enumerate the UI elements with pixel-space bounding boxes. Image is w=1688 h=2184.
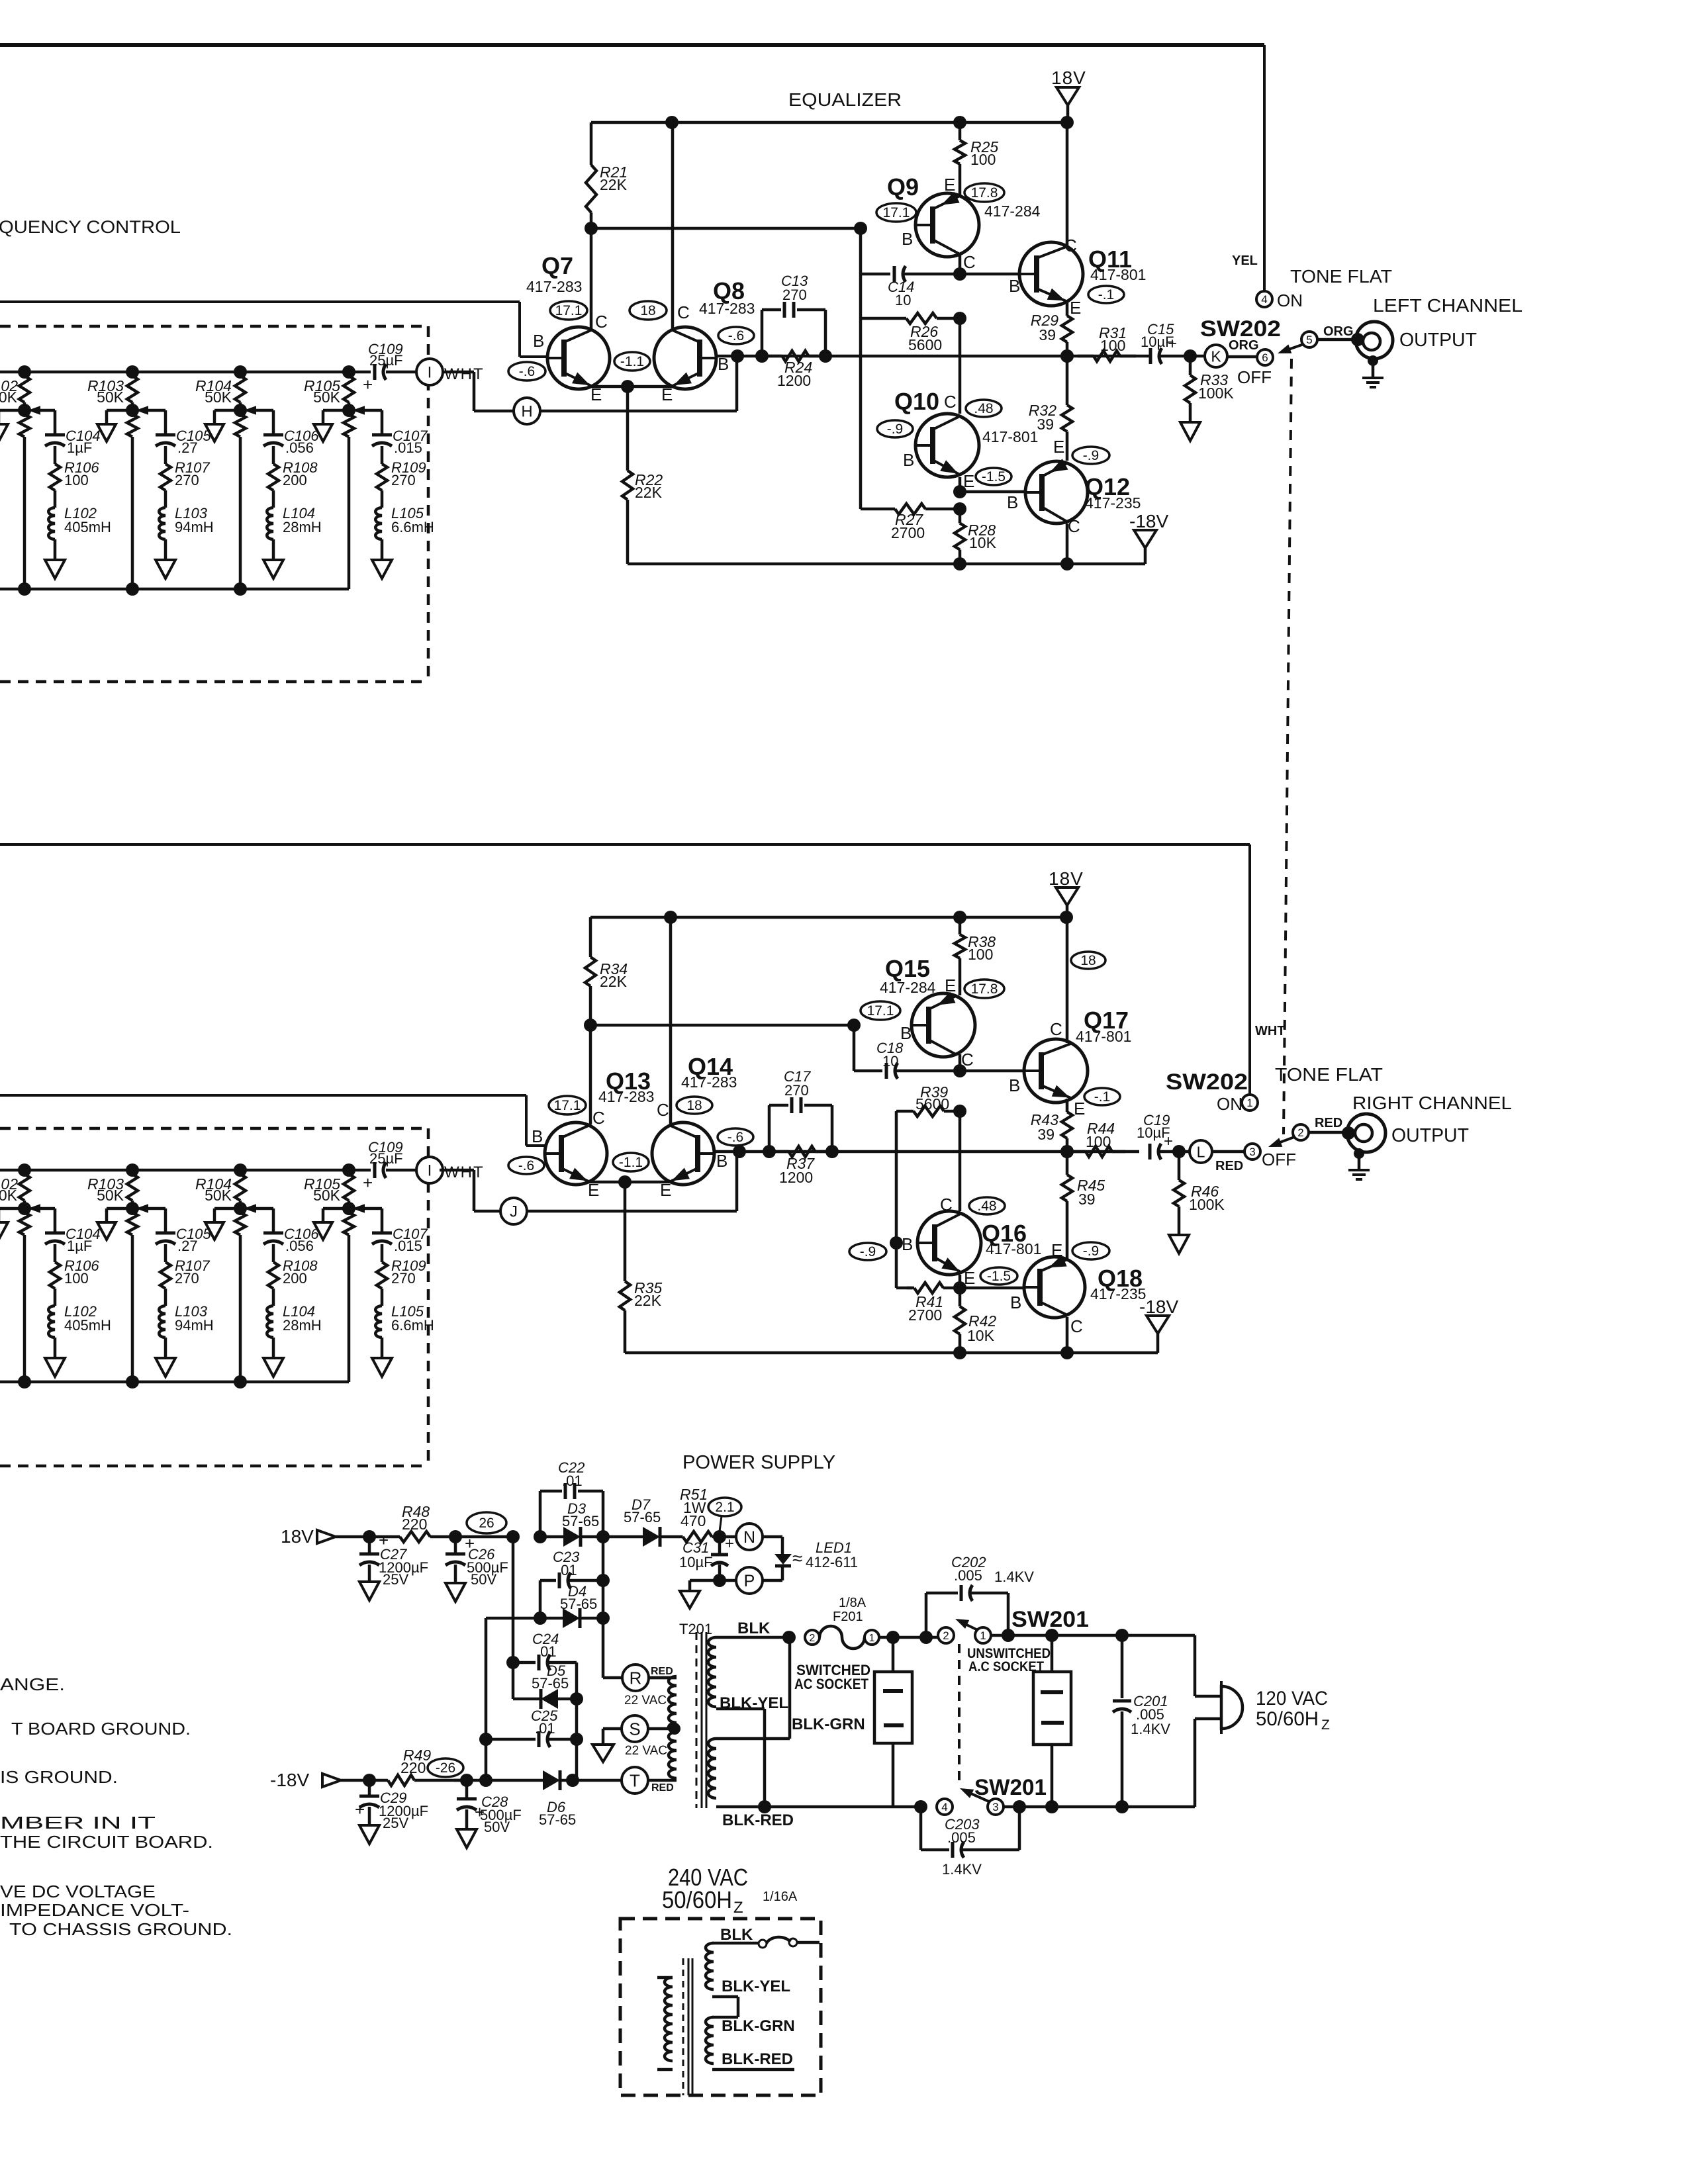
svg-text:270: 270: [391, 472, 416, 488]
svg-text:E: E: [944, 175, 955, 195]
svg-text:BLK-GRN: BLK-GRN: [792, 1715, 865, 1733]
svg-text:RED: RED: [1215, 1159, 1243, 1173]
svg-text:POWER SUPPLY: POWER SUPPLY: [682, 1452, 835, 1473]
svg-text:BLK-GRN: BLK-GRN: [722, 2017, 795, 2035]
svg-text:.005: .005: [947, 1829, 976, 1846]
svg-text:2: 2: [810, 1633, 816, 1644]
svg-text:-.9: -.9: [860, 1244, 876, 1259]
svg-text:50/60H: 50/60H: [662, 1886, 732, 1913]
svg-text:5600: 5600: [908, 336, 942, 353]
svg-text:50K: 50K: [0, 1187, 18, 1204]
svg-text:BLK-RED: BLK-RED: [722, 2050, 793, 2068]
svg-text:C: C: [595, 312, 608, 332]
svg-text:17.1: 17.1: [883, 205, 910, 220]
svg-text:405mH: 405mH: [64, 1317, 111, 1334]
svg-text:-.1: -.1: [1098, 287, 1115, 302]
svg-text:4: 4: [941, 1801, 947, 1813]
svg-text:Z: Z: [1321, 1717, 1330, 1733]
svg-text:2.1: 2.1: [715, 1500, 734, 1515]
svg-text:1/8A: 1/8A: [839, 1596, 867, 1610]
svg-text:50K: 50K: [97, 388, 124, 406]
svg-text:-.9: -.9: [1083, 448, 1100, 463]
svg-text:100K: 100K: [1198, 385, 1234, 402]
svg-text:94mH: 94mH: [175, 1317, 214, 1334]
svg-text:C: C: [944, 392, 957, 412]
svg-text:TONE FLAT: TONE FLAT: [1275, 1064, 1383, 1085]
svg-text:≈: ≈: [792, 1548, 802, 1569]
svg-text:50K: 50K: [313, 388, 341, 406]
svg-text:417-801: 417-801: [1076, 1028, 1131, 1045]
svg-text:10µF: 10µF: [679, 1554, 713, 1570]
svg-text:BLK-RED: BLK-RED: [722, 1811, 794, 1829]
svg-text:200: 200: [283, 1270, 307, 1287]
svg-text:K: K: [1211, 347, 1221, 365]
svg-text:+: +: [355, 1799, 365, 1819]
svg-text:1.4KV: 1.4KV: [942, 1861, 982, 1878]
svg-text:417-801: 417-801: [982, 428, 1038, 445]
svg-text:B: B: [533, 331, 544, 351]
svg-text:E: E: [1053, 437, 1064, 457]
svg-text:RED: RED: [1315, 1116, 1342, 1130]
svg-text:-1.1: -1.1: [620, 354, 644, 369]
svg-text:1.4KV: 1.4KV: [1131, 1721, 1170, 1737]
svg-text:B: B: [1007, 492, 1018, 512]
svg-text:10: 10: [882, 1053, 898, 1069]
svg-text:SW201: SW201: [974, 1775, 1047, 1800]
svg-text:.01: .01: [557, 1562, 577, 1578]
svg-text:17.8: 17.8: [971, 185, 998, 201]
svg-text:C: C: [963, 252, 976, 272]
svg-text:417-283: 417-283: [598, 1088, 654, 1105]
svg-text:B: B: [903, 450, 914, 470]
svg-text:C: C: [1050, 1019, 1062, 1039]
svg-text:1: 1: [869, 1633, 875, 1644]
svg-text:2700: 2700: [908, 1306, 942, 1324]
svg-text:50K: 50K: [313, 1187, 341, 1204]
svg-text:57-65: 57-65: [539, 1811, 576, 1828]
svg-text:OFF: OFF: [1237, 367, 1272, 387]
svg-text:MBER IN IT: MBER IN IT: [0, 1813, 156, 1833]
svg-text:-18V: -18V: [270, 1770, 309, 1790]
svg-text:17.8: 17.8: [971, 981, 998, 997]
svg-text:10: 10: [895, 292, 911, 308]
svg-text:BLK: BLK: [720, 1926, 753, 1944]
svg-text:17.1: 17.1: [555, 303, 583, 318]
svg-text:B: B: [902, 229, 913, 249]
svg-text:IMPEDANCE VOLT-: IMPEDANCE VOLT-: [0, 1900, 189, 1920]
svg-text:.015: .015: [394, 439, 422, 456]
svg-text:18V: 18V: [281, 1526, 314, 1547]
svg-text:100: 100: [1086, 1133, 1111, 1150]
svg-text:EQUALIZER: EQUALIZER: [788, 89, 902, 110]
svg-text:.005: .005: [954, 1567, 982, 1584]
svg-text:270: 270: [782, 287, 807, 303]
svg-text:-26: -26: [436, 1760, 455, 1776]
svg-text:C: C: [940, 1195, 953, 1214]
svg-text:E: E: [1051, 1240, 1062, 1260]
svg-text:6.6mH: 6.6mH: [391, 519, 434, 535]
svg-text:+: +: [725, 1535, 734, 1553]
svg-text:B: B: [532, 1126, 543, 1146]
svg-text:-.9: -.9: [1083, 1244, 1100, 1259]
svg-text:18V: 18V: [1051, 68, 1086, 88]
svg-text:100: 100: [64, 1270, 89, 1287]
svg-text:2: 2: [943, 1629, 949, 1642]
svg-text:1: 1: [1246, 1097, 1252, 1109]
svg-text:ORG: ORG: [1323, 324, 1354, 339]
svg-text:C: C: [657, 1100, 669, 1120]
svg-text:Q9: Q9: [887, 173, 919, 201]
svg-text:IS GROUND.: IS GROUND.: [0, 1767, 118, 1787]
svg-text:.27: .27: [177, 1238, 198, 1254]
svg-text:T: T: [630, 1770, 640, 1790]
svg-text:1200: 1200: [779, 1169, 813, 1186]
svg-text:22K: 22K: [634, 1292, 662, 1309]
svg-text:L: L: [1197, 1143, 1205, 1160]
svg-text:LEFT CHANNEL: LEFT CHANNEL: [1373, 295, 1523, 316]
svg-text:22 VAC: 22 VAC: [624, 1694, 667, 1707]
svg-text:+: +: [1164, 1132, 1173, 1150]
svg-text:100: 100: [970, 151, 996, 168]
svg-text:120 VAC: 120 VAC: [1256, 1688, 1328, 1709]
svg-text:-18V: -18V: [1129, 511, 1168, 531]
svg-text:100K: 100K: [1189, 1196, 1225, 1213]
svg-text:+: +: [1168, 335, 1177, 353]
svg-text:C: C: [677, 302, 690, 322]
svg-text:17.1: 17.1: [867, 1003, 894, 1019]
svg-text:25V: 25V: [383, 1571, 408, 1588]
svg-text:270: 270: [391, 1270, 416, 1287]
svg-text:J: J: [510, 1203, 518, 1221]
svg-text:-1.1: -1.1: [619, 1155, 643, 1170]
svg-text:17.1: 17.1: [554, 1098, 581, 1113]
svg-text:1µF: 1µF: [67, 1238, 92, 1254]
svg-text:1: 1: [980, 1629, 986, 1642]
svg-text:5: 5: [1306, 334, 1312, 346]
svg-text:-.6: -.6: [728, 328, 745, 343]
svg-text:412-611: 412-611: [806, 1554, 858, 1570]
svg-text:1.4KV: 1.4KV: [994, 1569, 1034, 1585]
svg-text:Q10: Q10: [894, 388, 939, 415]
svg-text:RIGHT CHANNEL: RIGHT CHANNEL: [1352, 1093, 1512, 1113]
svg-text:VE DC VOLTAGE: VE DC VOLTAGE: [0, 1882, 156, 1901]
svg-text:50K: 50K: [97, 1187, 124, 1204]
svg-text:270: 270: [175, 1270, 199, 1287]
svg-text:200: 200: [283, 472, 307, 488]
svg-text:100: 100: [1100, 337, 1125, 354]
svg-text:.48: .48: [974, 401, 993, 416]
svg-text:-.6: -.6: [519, 364, 536, 379]
svg-text:+: +: [363, 1173, 373, 1193]
svg-text:.056: .056: [285, 1238, 314, 1254]
svg-text:220: 220: [402, 1516, 427, 1533]
svg-text:BLK-YEL: BLK-YEL: [720, 1694, 788, 1712]
svg-text:25V: 25V: [383, 1815, 408, 1831]
svg-text:57-65: 57-65: [562, 1513, 599, 1529]
svg-text:S: S: [629, 1719, 640, 1739]
svg-text:10K: 10K: [967, 1327, 995, 1344]
svg-text:C: C: [1068, 516, 1080, 536]
svg-text:WHT: WHT: [444, 1163, 485, 1181]
svg-text:417-284: 417-284: [880, 979, 936, 996]
svg-text:18V: 18V: [1049, 868, 1084, 889]
svg-text:270: 270: [784, 1082, 809, 1099]
svg-text:OUTPUT: OUTPUT: [1399, 330, 1477, 351]
svg-text:50K: 50K: [0, 388, 18, 406]
svg-text:22K: 22K: [600, 973, 628, 990]
svg-text:SW202: SW202: [1166, 1069, 1248, 1095]
svg-text:.48: .48: [977, 1199, 996, 1214]
svg-text:1/16A: 1/16A: [763, 1889, 798, 1904]
svg-text:.01: .01: [536, 1643, 557, 1660]
svg-text:57-65: 57-65: [532, 1675, 569, 1692]
svg-text:H: H: [521, 403, 532, 421]
svg-text:C: C: [1070, 1316, 1083, 1336]
svg-text:I: I: [428, 364, 432, 382]
svg-text:AC SOCKET: AC SOCKET: [794, 1676, 868, 1692]
svg-text:-1.5: -1.5: [987, 1269, 1011, 1284]
svg-text:100: 100: [968, 946, 993, 963]
svg-text:22K: 22K: [635, 484, 663, 501]
svg-text:.01: .01: [535, 1720, 555, 1737]
svg-text:39: 39: [1039, 326, 1056, 343]
svg-text:.01: .01: [562, 1473, 583, 1489]
svg-text:417-801: 417-801: [1090, 266, 1146, 283]
svg-text:BLK: BLK: [737, 1619, 771, 1637]
svg-text:SW201: SW201: [1011, 1607, 1089, 1632]
svg-text:BLK-YEL: BLK-YEL: [722, 1978, 790, 1995]
svg-text:C: C: [592, 1108, 605, 1128]
svg-text:57-65: 57-65: [560, 1596, 597, 1612]
svg-text:417-235: 417-235: [1085, 494, 1141, 512]
svg-text:ON: ON: [1277, 291, 1303, 310]
svg-text:5600: 5600: [915, 1095, 949, 1113]
svg-text:.015: .015: [394, 1238, 422, 1254]
svg-text:10K: 10K: [969, 534, 997, 551]
svg-text:270: 270: [175, 472, 199, 488]
svg-text:RED: RED: [651, 1666, 673, 1677]
svg-text:T BOARD GROUND.: T BOARD GROUND.: [11, 1719, 191, 1739]
svg-text:TO CHASSIS GROUND.: TO CHASSIS GROUND.: [9, 1919, 232, 1939]
svg-text:28mH: 28mH: [283, 1317, 322, 1334]
svg-text:220: 220: [400, 1759, 426, 1776]
svg-text:-.6: -.6: [518, 1158, 535, 1173]
svg-text:TONE FLAT: TONE FLAT: [1290, 266, 1392, 287]
svg-text:THE CIRCUIT BOARD.: THE CIRCUIT BOARD.: [0, 1832, 213, 1852]
svg-text:I: I: [428, 1162, 432, 1180]
svg-text:OUTPUT: OUTPUT: [1391, 1125, 1469, 1146]
svg-text:39: 39: [1037, 1126, 1055, 1143]
svg-text:WHT: WHT: [444, 365, 485, 383]
svg-text:3: 3: [1249, 1146, 1255, 1158]
svg-text:-1.5: -1.5: [982, 469, 1006, 484]
svg-text:Q15: Q15: [885, 955, 930, 982]
svg-text:R: R: [630, 1668, 642, 1688]
svg-text:N: N: [743, 1528, 755, 1547]
svg-text:OFF: OFF: [1262, 1150, 1296, 1169]
svg-text:39: 39: [1078, 1191, 1096, 1208]
svg-text:2700: 2700: [891, 524, 925, 541]
svg-text:1200: 1200: [777, 372, 811, 389]
svg-text:417-284: 417-284: [984, 203, 1041, 220]
svg-text:50V: 50V: [471, 1571, 496, 1588]
svg-text:3: 3: [992, 1801, 998, 1813]
svg-text:.27: .27: [177, 439, 198, 456]
svg-text:28mH: 28mH: [283, 519, 322, 535]
svg-text:B: B: [902, 1234, 913, 1254]
svg-text:417-801: 417-801: [986, 1240, 1041, 1257]
svg-text:470: 470: [680, 1512, 706, 1529]
svg-text:-.1: -.1: [1094, 1089, 1111, 1105]
svg-text:22 VAC: 22 VAC: [625, 1744, 667, 1758]
svg-text:6.6mH: 6.6mH: [391, 1317, 434, 1334]
svg-text:YEL: YEL: [1232, 253, 1258, 268]
svg-text:1µF: 1µF: [67, 439, 92, 456]
svg-text:25µF: 25µF: [369, 352, 403, 369]
svg-text:50/60H: 50/60H: [1256, 1708, 1319, 1730]
svg-text:B: B: [716, 1151, 727, 1171]
svg-text:B: B: [1009, 1075, 1020, 1095]
svg-text:E: E: [945, 976, 956, 995]
svg-text:WHT: WHT: [1255, 1024, 1286, 1038]
svg-text:25µF: 25µF: [369, 1150, 403, 1167]
svg-text:94mH: 94mH: [175, 519, 214, 535]
svg-text:ON: ON: [1217, 1094, 1243, 1114]
svg-text:39: 39: [1037, 416, 1054, 433]
svg-text:2: 2: [1297, 1126, 1303, 1139]
svg-text:ORG: ORG: [1229, 338, 1259, 353]
svg-text:E: E: [1074, 1099, 1085, 1118]
svg-text:P: P: [744, 1572, 755, 1590]
svg-text:B: B: [1009, 276, 1020, 296]
svg-text:417-235: 417-235: [1090, 1285, 1146, 1302]
svg-text:-.9: -.9: [887, 422, 904, 437]
svg-text:-.6: -.6: [727, 1130, 744, 1145]
svg-text:ANGE.: ANGE.: [0, 1674, 65, 1694]
svg-text:QUENCY CONTROL: QUENCY CONTROL: [0, 217, 181, 237]
svg-text:18: 18: [686, 1098, 702, 1113]
svg-text:405mH: 405mH: [64, 519, 111, 535]
svg-text:417-283: 417-283: [681, 1073, 737, 1091]
svg-text:+: +: [363, 375, 373, 394]
svg-text:F201: F201: [833, 1610, 863, 1624]
svg-text:Q7: Q7: [541, 252, 573, 279]
svg-text:417-283: 417-283: [699, 300, 755, 317]
svg-text:100: 100: [64, 472, 89, 488]
svg-text:RED: RED: [651, 1782, 674, 1794]
svg-text:22K: 22K: [600, 176, 628, 193]
svg-text:18: 18: [640, 303, 655, 318]
svg-text:50V: 50V: [484, 1819, 510, 1835]
svg-text:4: 4: [1261, 293, 1267, 306]
svg-text:B: B: [1010, 1293, 1021, 1312]
svg-text:18: 18: [1080, 953, 1096, 968]
svg-text:50K: 50K: [205, 388, 232, 406]
svg-text:6: 6: [1262, 351, 1268, 364]
svg-text:50K: 50K: [205, 1187, 232, 1204]
svg-text:.056: .056: [285, 439, 314, 456]
svg-text:E: E: [1070, 298, 1081, 318]
svg-text:Z: Z: [733, 1899, 743, 1917]
svg-text:26: 26: [479, 1516, 494, 1531]
svg-text:417-283: 417-283: [526, 278, 582, 295]
svg-text:57-65: 57-65: [624, 1509, 661, 1525]
